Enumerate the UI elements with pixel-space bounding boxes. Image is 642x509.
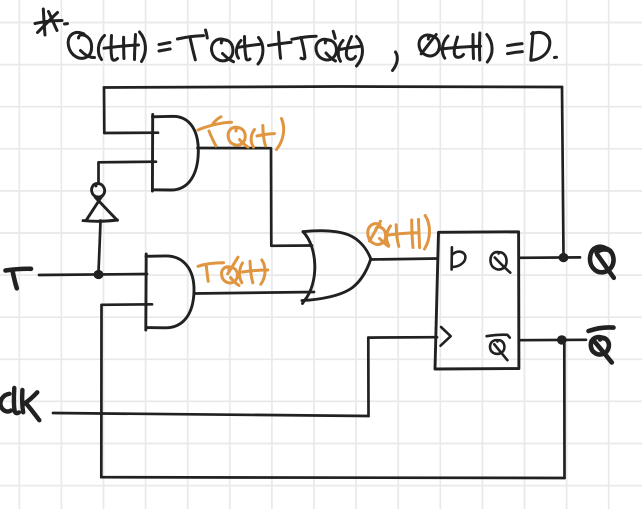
pin label: Q (inside box) bbox=[490, 252, 510, 273]
wire: Qbar output bbox=[519, 338, 586, 341]
wire: Q feedback (top horizontal) bbox=[104, 87, 562, 88]
label: Q(t+1) (orange, OR output) bbox=[368, 216, 430, 250]
AND gate (TQ' term) bbox=[146, 254, 194, 330]
D flip-flop box bbox=[435, 232, 519, 369]
label: Q (output) bbox=[590, 247, 614, 278]
label: clk (input) bbox=[0, 388, 39, 420]
formula: Q(t+1) = D bbox=[419, 32, 556, 62]
inverter (NOT gate) bbox=[83, 184, 118, 222]
label: T (input) bbox=[6, 269, 32, 289]
OR gate bbox=[302, 231, 371, 304]
wire: T input bbox=[39, 274, 147, 275]
pin label: D bbox=[452, 247, 466, 269]
pin label: Qbar (inside box) bbox=[487, 335, 510, 360]
AND gate (T'Q term) bbox=[152, 115, 198, 192]
wire: inverter input bbox=[99, 221, 101, 274]
wire: CLK to flip-flop clock pin bbox=[368, 336, 437, 339]
wire: CLK horizontal bbox=[53, 413, 369, 416]
label: TQ'(t) (orange) bbox=[198, 257, 268, 285]
wire: Q output bbox=[519, 256, 580, 259]
node: T junction dot bbox=[94, 270, 104, 279]
wire: Qbar feedback right vertical (to Qbar node) bbox=[563, 342, 566, 479]
node: Qbar junction dot bbox=[557, 335, 567, 344]
wire: inverter output to top AND input 2 bbox=[99, 162, 157, 184]
pin label: clock > bbox=[441, 327, 451, 346]
wire: Qbar feedback left vertical bbox=[100, 305, 103, 477]
label: Qbar (output) bbox=[589, 327, 614, 362]
wire: Q feedback right vertical (to Q node) bbox=[562, 87, 564, 256]
wire: top AND gate input 1 bbox=[104, 131, 158, 134]
node: Q junction dot bbox=[559, 253, 569, 262]
wire: Qbar feedback to bottom AND input 2 bbox=[102, 303, 152, 306]
wire: bottom AND output to OR input 2 bbox=[194, 292, 314, 294]
formula: * Q(t+1) = T'Q(t) + TQ'(t) bbox=[35, 9, 397, 71]
wire: Qbar feedback bottom horizontal bbox=[101, 476, 564, 479]
wire: top AND output to OR input 1 bbox=[198, 148, 313, 246]
wire: OR output to D pin bbox=[371, 259, 438, 260]
label: T'Q(t) (orange) bbox=[198, 117, 284, 150]
wire: CLK vertical riser bbox=[367, 338, 370, 416]
wire: Q feedback left vertical bbox=[103, 88, 106, 134]
